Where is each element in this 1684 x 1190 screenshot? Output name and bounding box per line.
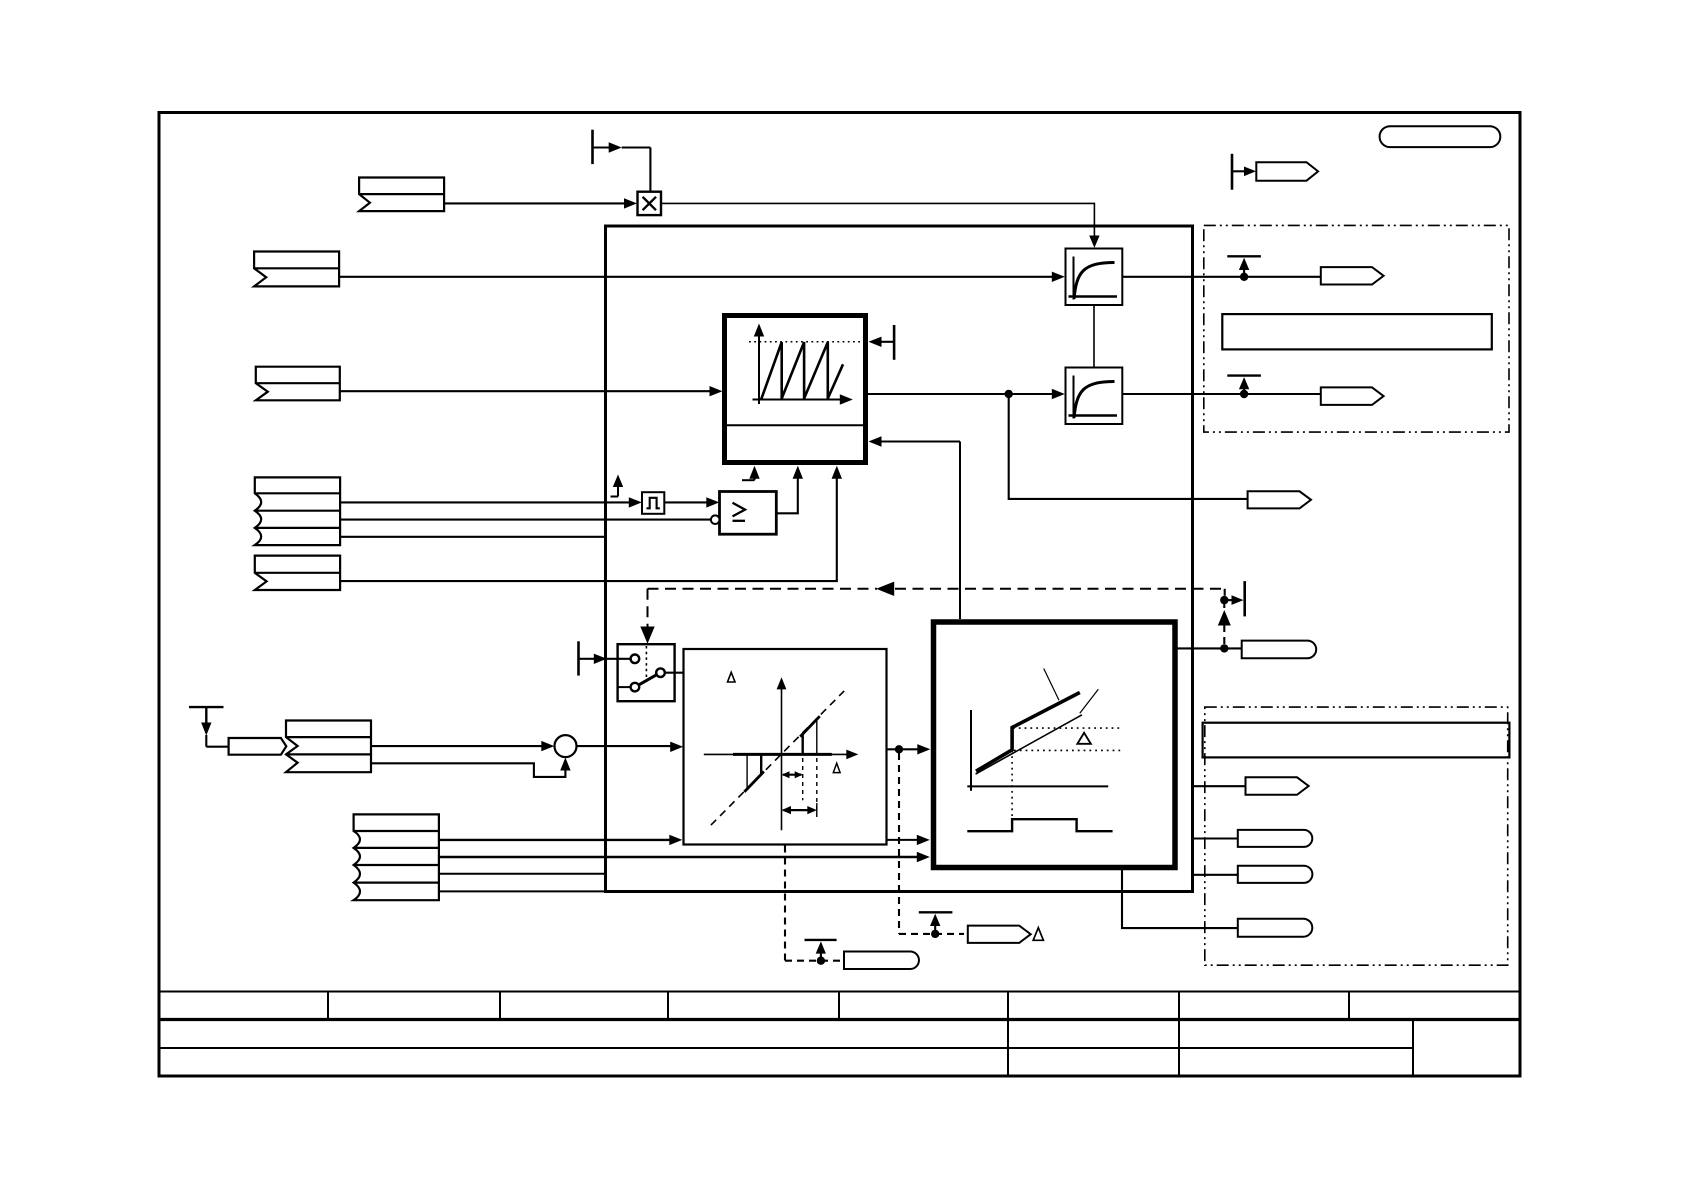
wire G1 row2 to OR gate inverted input [340,519,711,521]
output connector D1 [1246,777,1309,795]
dash-dot box lower right [1205,707,1508,965]
fixed-value marker T above G2 [189,707,229,747]
callout line 2 [1080,689,1099,713]
output connector D4 rounded [1238,919,1313,937]
filter block F1 (smoothing) [1066,249,1123,306]
input connector flag K1 [359,178,444,212]
wire multiplier to filter1 top [661,203,1094,242]
hysteresis pulse waveform [967,819,1112,831]
output connector D3 rounded [1238,866,1313,883]
multiplier block X [638,192,662,215]
wire F1 to F2 link [1093,305,1095,368]
deadband delta label right [833,763,840,772]
node sawtooth output tap [1005,390,1013,398]
hysteresis block outline [934,622,1176,868]
wire tap to connector A3 [1009,394,1248,499]
OR gate inverted input circle [711,515,720,524]
sawtooth generator block [725,316,866,463]
dashed tap wire from deadband bottom [785,846,841,961]
hysteresis characteristic thin [976,715,1082,774]
hysteresis dotted levels [1012,728,1122,817]
trace tap T1 [1227,256,1261,281]
hysteresis delta label [1077,733,1090,744]
wire G3 row3 into block [439,873,606,875]
sawtooth waveform [761,342,843,399]
deadband threshold dashed drop lines [803,758,817,815]
drawing border frame [159,113,1520,1077]
wire block output to connector D1 [1193,785,1246,787]
hysteresis icon axes [970,710,972,791]
parameter box P2 [1203,723,1510,758]
wire K3 to sawtooth input [340,390,710,392]
pulse shaper block [642,492,664,514]
input connector group G2 (2 rows) [286,721,371,773]
output connector B2 [1321,387,1384,405]
dashed tap wire from deadband output node [899,753,964,934]
delta label at connector E2 [1033,928,1043,941]
wire deadband output to hysteresis block [887,748,919,750]
page reference stadium top right [1380,126,1501,147]
binector output marker mid [1225,599,1237,601]
rising edge symbol at pulse input [611,484,619,497]
summing point circle [555,735,577,757]
wire hysteresis output [1177,647,1242,649]
dash-dot box upper right [1204,225,1509,432]
wire G2 row1 to summer [371,745,542,747]
wire G1 row3 into block [340,536,605,538]
output connector B1 [1321,267,1384,284]
output connector E1 rounded [844,952,919,970]
wire hysteresis bottom to connector D4 [1122,869,1238,928]
wire F1 output to connector B1 [1122,276,1321,278]
deadband wide double arrow [784,809,815,811]
wire K4 to sawtooth bottom input 3 [340,477,837,582]
wire G3 row2 to hysteresis block input [439,856,917,858]
wire summer to deadband input [577,745,672,747]
deadband characteristic [733,716,832,792]
hysteresis characteristic thick [976,693,1080,772]
wire K1 to multiplier [444,202,624,204]
wire F2 output to connector B2 [1122,393,1321,395]
sawtooth icon axes [753,329,847,404]
switch selector block [618,644,675,701]
input connector flag K4 [255,556,340,590]
deadband unity dashed diagonal [711,691,844,825]
deadband small double arrow [783,774,802,776]
wire G3 row4 into block corner [439,890,606,892]
wire G1 row1 to pulse shaper [340,501,629,503]
wire K2 to filter1 [339,276,1052,278]
input connector group G1 (3 binector inputs) [255,477,340,545]
node deadband output tap [895,745,903,753]
dashed tap to binector output [1223,589,1225,644]
input connector flag K3 [256,367,340,401]
limit input marker at sawtooth right [881,325,894,360]
OR gate block [720,492,777,535]
output connector D2 rounded [1238,830,1313,847]
trace tap T3 [805,939,837,941]
wire G3 row1 to deadband lower input [439,839,670,841]
trace tap T2 [1227,376,1261,399]
title block table [159,992,1520,1077]
deadband block [684,649,887,845]
wire OR gate output to sawtooth bottom [776,477,798,514]
parameter connector into G2 [229,738,287,755]
node hysteresis output tap [1220,644,1228,652]
deadband icon axes [781,683,783,830]
callout line 1 [1044,669,1059,701]
wire hysteresis feedback to sawtooth [959,442,961,620]
wire switch output to deadband [665,672,684,674]
wire block output to connector D2 [1193,837,1238,839]
main function block outline [606,226,1193,892]
input connector flag K2 [254,252,339,287]
trace tap T4 [919,911,953,913]
output connector F0 top right [1256,162,1318,181]
filter block F2 (smoothing) [1066,368,1123,425]
binector constant marker top [593,130,651,192]
input connector group G3 (4 rows) [354,814,439,900]
binector input marker for switch [577,641,580,675]
wire G2 row2 to summer bottom [371,763,565,777]
binector output marker top right [1231,154,1234,190]
output connector A3 [1248,491,1311,508]
output connector E2 [968,926,1031,943]
wire pulse shaper to OR gate [664,501,707,503]
sawtooth peak dotted level [749,341,864,343]
wire sawtooth output [866,393,1053,395]
deadband delta label [728,672,736,682]
parameter box P1 [1222,314,1492,349]
wire deadband pass-through to hysteresis lower input [887,839,918,841]
dashed control wire from hysteresis to switch [648,589,1225,632]
rising edge symbol at sawtooth set input [742,477,755,481]
output connector C1 rounded [1242,641,1317,659]
wire block output to connector D3 [1193,874,1238,876]
